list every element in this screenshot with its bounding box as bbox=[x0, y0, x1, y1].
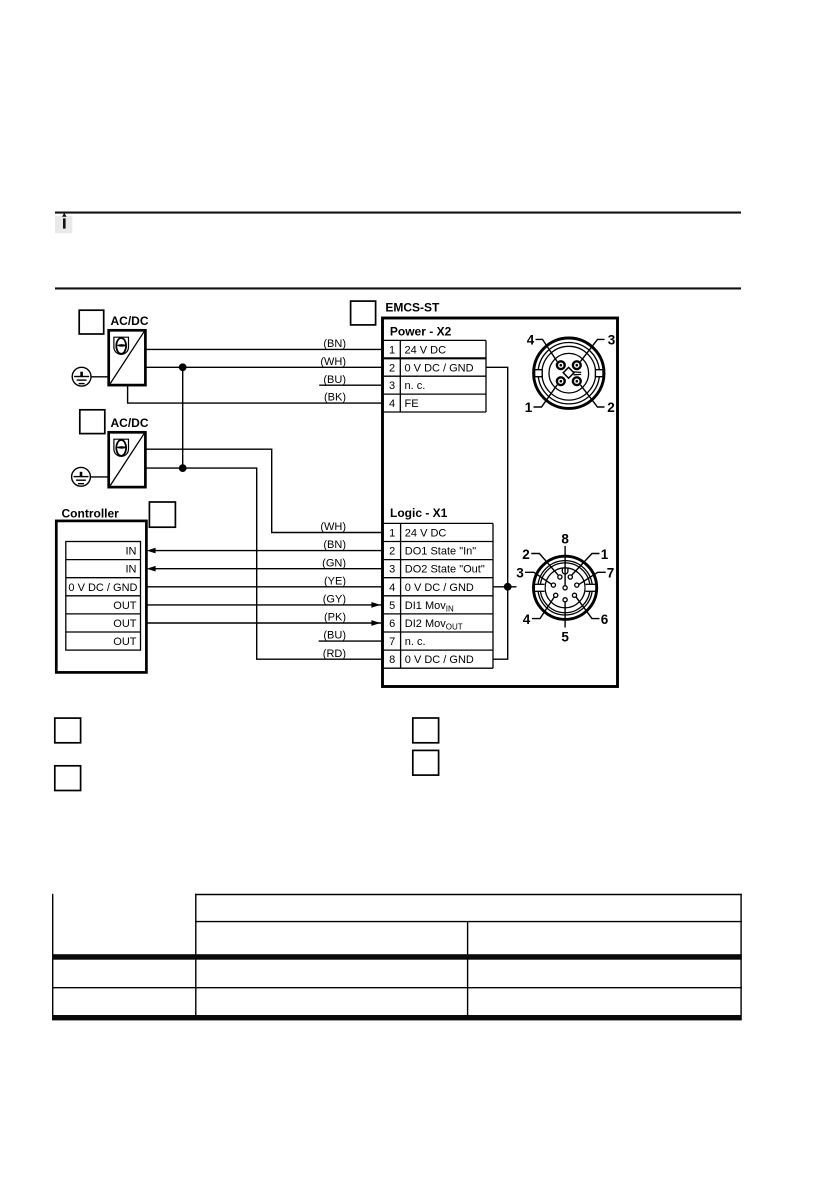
svg-text:3: 3 bbox=[608, 332, 616, 347]
wire (GN) X1.3 to controller IN bbox=[152, 568, 384, 570]
power supply U1 plug symbol bbox=[114, 337, 129, 354]
svg-text:Controller: Controller bbox=[62, 507, 120, 521]
power supply U1 diagonal bbox=[110, 332, 144, 384]
arrowhead into controller IN2 bbox=[147, 566, 156, 572]
svg-text:DI2 MovOUT: DI2 MovOUT bbox=[405, 618, 463, 632]
internal 0V bus wire X2.2 to X1.8 bbox=[486, 367, 508, 659]
wire (WH) U2 to X1.1 bbox=[145, 449, 384, 532]
svg-text:(GN): (GN) bbox=[322, 557, 346, 569]
legend square 4 (at EMCS-ST) bbox=[351, 301, 376, 325]
wire stub (BU) X1.7 bbox=[319, 640, 384, 642]
svg-text:4: 4 bbox=[389, 582, 395, 594]
svg-text:FE: FE bbox=[405, 398, 419, 410]
M8 plug connector face bbox=[525, 332, 616, 415]
M8 left notch bbox=[535, 370, 543, 377]
Power X2 table bbox=[384, 340, 486, 412]
svg-text:(BN): (BN) bbox=[323, 539, 346, 551]
svg-text:5: 5 bbox=[389, 600, 395, 612]
M12 keyway bbox=[562, 568, 568, 574]
svg-text:Power - X2: Power - X2 bbox=[390, 324, 452, 338]
svg-text:(WH): (WH) bbox=[320, 521, 346, 533]
svg-text:1: 1 bbox=[601, 547, 609, 562]
legend square 8 bbox=[413, 750, 439, 775]
M8 outer circle bbox=[534, 338, 604, 408]
Logic X1 table bbox=[384, 523, 493, 668]
svg-text:DO1 State "In": DO1 State "In" bbox=[405, 546, 476, 558]
legend square 3 (at controller) bbox=[149, 502, 175, 527]
junction dot 2 bbox=[179, 464, 187, 472]
svg-text:24 V DC: 24 V DC bbox=[405, 344, 447, 356]
M12 rings bbox=[538, 561, 592, 615]
wire stub (BU) X2.3 bbox=[319, 384, 384, 386]
svg-text:OUT: OUT bbox=[113, 636, 137, 648]
M8 pin 4 bbox=[557, 361, 565, 369]
svg-text:1: 1 bbox=[389, 344, 395, 356]
svg-text:(BU): (BU) bbox=[323, 630, 346, 642]
legend square 2 (at AC/DC unit 2) bbox=[80, 410, 105, 434]
svg-text:24 V DC: 24 V DC bbox=[405, 528, 447, 540]
svg-text:0 V DC / GND: 0 V DC / GND bbox=[405, 362, 474, 374]
M8 right notch bbox=[595, 370, 603, 377]
table right border bbox=[740, 894, 742, 1015]
M12 pin 4 bbox=[554, 593, 558, 597]
table header row divider bbox=[195, 921, 742, 923]
table data row divider bbox=[52, 987, 742, 989]
svg-text:Logic - X1: Logic - X1 bbox=[390, 506, 448, 520]
power supply U1 box bbox=[109, 330, 146, 385]
svg-text:n. c.: n. c. bbox=[405, 636, 426, 648]
svg-text:AC/DC: AC/DC bbox=[111, 314, 149, 328]
legend square 6 bbox=[55, 766, 81, 791]
svg-text:(RD): (RD) bbox=[323, 648, 346, 660]
wire junction1 to junction2 bbox=[182, 367, 184, 468]
svg-text:8: 8 bbox=[389, 654, 395, 666]
svg-text:2: 2 bbox=[389, 546, 395, 558]
junction dot 1 bbox=[179, 363, 187, 371]
M12 pin 6 bbox=[572, 593, 576, 597]
M12 left notch bbox=[534, 584, 544, 591]
svg-text:(WH): (WH) bbox=[320, 356, 346, 368]
legend square 5 bbox=[55, 718, 81, 743]
power supply U2 diagonal bbox=[110, 434, 144, 486]
svg-text:0 V DC / GND: 0 V DC / GND bbox=[405, 582, 474, 594]
svg-text:7: 7 bbox=[389, 636, 395, 648]
wire (YE) controller 0V to X1.4 bbox=[141, 586, 384, 588]
svg-text:1: 1 bbox=[525, 400, 533, 415]
M12 pin 8 (center) bbox=[563, 586, 567, 590]
svg-text:DO2 State "Out": DO2 State "Out" bbox=[405, 564, 485, 576]
M12 pin 1 bbox=[568, 575, 572, 579]
internal wire X1.4 to bus bbox=[493, 586, 517, 588]
svg-text:IN: IN bbox=[126, 546, 137, 558]
M8 pin 3 bbox=[573, 361, 581, 369]
M12 pin 3 bbox=[551, 583, 555, 587]
bottom rule of note block bbox=[55, 287, 741, 289]
protective earth symbol PE1 bbox=[72, 367, 91, 386]
table thick header rule bbox=[52, 954, 742, 960]
M8 pin 2 bbox=[573, 377, 581, 385]
svg-text:IN: IN bbox=[126, 564, 137, 576]
svg-text:2: 2 bbox=[522, 547, 530, 562]
svg-text:(PK): (PK) bbox=[324, 612, 346, 624]
svg-text:DI1 MovIN: DI1 MovIN bbox=[405, 600, 454, 614]
svg-text:8: 8 bbox=[561, 532, 569, 547]
svg-text:3: 3 bbox=[516, 566, 524, 581]
Controller inner table bbox=[66, 542, 141, 651]
wire PE1 to U1 bbox=[91, 376, 109, 378]
M12 pin 5 leader bbox=[564, 602, 566, 627]
M12 pin 2 bbox=[558, 575, 562, 579]
Controller box bbox=[56, 521, 146, 673]
svg-text:OUT: OUT bbox=[113, 600, 137, 612]
M8 pin 1 bbox=[557, 377, 565, 385]
svg-text:(GY): (GY) bbox=[323, 594, 346, 606]
arrowhead into controller IN1 bbox=[147, 548, 156, 554]
arrowhead into X1.6 bbox=[371, 620, 380, 626]
svg-text:3: 3 bbox=[389, 380, 395, 392]
svg-text:n. c.: n. c. bbox=[405, 380, 426, 392]
M12 outer circle bbox=[534, 556, 597, 619]
power supply U2 plug symbol bbox=[114, 439, 129, 456]
svg-text:0 V DC / GND: 0 V DC / GND bbox=[405, 654, 474, 666]
M8 center keyway diamond bbox=[563, 367, 574, 378]
table top border bbox=[195, 894, 742, 896]
svg-text:6: 6 bbox=[601, 612, 609, 627]
svg-text:6: 6 bbox=[389, 618, 395, 630]
svg-text:2: 2 bbox=[389, 362, 395, 374]
M12 pin 7 bbox=[575, 583, 579, 587]
M8 rings bbox=[538, 343, 599, 404]
table column divider 2 bbox=[467, 922, 469, 1015]
wire (WH) U1 to X2.2 bbox=[145, 366, 384, 368]
legend square 7 bbox=[413, 718, 439, 743]
svg-text:(BN): (BN) bbox=[323, 338, 346, 350]
svg-text:(BK): (BK) bbox=[324, 392, 346, 404]
svg-text:(YE): (YE) bbox=[324, 575, 346, 587]
svg-text:5: 5 bbox=[561, 630, 569, 645]
info icon glyph i bbox=[63, 218, 66, 228]
power supply U2 box bbox=[109, 432, 146, 487]
M12 socket connector face bbox=[516, 532, 614, 645]
M12 pin 5 bbox=[563, 598, 567, 602]
M12 pin 8 leader bbox=[564, 546, 566, 586]
svg-text:1: 1 bbox=[389, 528, 395, 540]
svg-text:2: 2 bbox=[607, 400, 615, 415]
svg-text:4: 4 bbox=[523, 612, 531, 627]
wire (PK) controller OUT to X1.6 bbox=[141, 622, 384, 624]
svg-text:4: 4 bbox=[389, 398, 395, 410]
wire (BN) X1.2 to controller IN bbox=[152, 550, 384, 552]
svg-text:EMCS-ST: EMCS-ST bbox=[385, 300, 440, 314]
wire (GY) controller OUT to X1.5 bbox=[141, 604, 384, 606]
legend square 1 (at AC/DC unit 1) bbox=[79, 310, 104, 334]
arrowhead into X1.5 bbox=[371, 602, 380, 608]
EMCS-ST box bbox=[383, 318, 618, 687]
svg-text:7: 7 bbox=[607, 566, 615, 581]
table left border bbox=[52, 894, 54, 1015]
protective earth symbol PE2 bbox=[72, 467, 91, 486]
svg-text:3: 3 bbox=[389, 564, 395, 576]
svg-text:4: 4 bbox=[527, 332, 535, 347]
wire (BN) U1 to X2.1 bbox=[145, 348, 384, 350]
table thick bottom rule bbox=[52, 1015, 742, 1020]
top horizontal rule bbox=[55, 212, 741, 214]
svg-text:(BU): (BU) bbox=[323, 374, 346, 386]
wire U2 0V to junction 2 and X1.8 bbox=[145, 468, 384, 659]
svg-text:OUT: OUT bbox=[113, 618, 137, 630]
junction dot on bus bbox=[504, 583, 512, 591]
info icon box bbox=[55, 216, 72, 233]
M12 right notch bbox=[586, 584, 596, 591]
wire PE2 to U2 bbox=[90, 476, 109, 478]
svg-text:AC/DC: AC/DC bbox=[111, 416, 149, 430]
svg-text:0 V DC / GND: 0 V DC / GND bbox=[68, 582, 137, 594]
wire (BK) U1 to X2.4 bbox=[128, 385, 384, 403]
table column divider 1 bbox=[195, 894, 197, 1015]
